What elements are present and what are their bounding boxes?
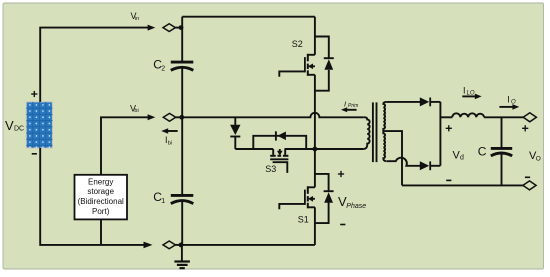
- svg-text:O: O: [536, 155, 541, 162]
- transformer core: [372, 102, 374, 162]
- minus of VPhase: [340, 224, 345, 226]
- energy storage box: [75, 175, 128, 220]
- wire rectifier output vertical: [439, 102, 441, 166]
- arrow Ibi (pointing left): [168, 130, 178, 132]
- wire diamond to bus: [176, 116, 183, 118]
- plus of VPhase: [338, 171, 344, 177]
- wire center tap: [383, 131, 402, 185]
- arrow ILO: [462, 95, 475, 97]
- wire output bottom rail: [402, 184, 523, 186]
- transistor S1 (mosfet): [279, 186, 315, 209]
- wire secondary top: [387, 101, 421, 103]
- diode body of S3 (branch above): [253, 131, 306, 149]
- wire diamond to bus: [175, 27, 182, 29]
- ground: [174, 245, 190, 268]
- diode rectifier bottom: [420, 161, 429, 170]
- transformer primary winding: [363, 117, 369, 149]
- capacitor C output: [501, 117, 503, 148]
- node Vin dot: [179, 25, 184, 30]
- diode body of S2: [315, 37, 334, 91]
- svg-text:bi: bi: [134, 108, 138, 114]
- wire primary bottom to junction: [315, 148, 363, 150]
- svg-text:Prim: Prim: [348, 103, 358, 109]
- svg-text:storage: storage: [87, 187, 114, 196]
- svg-text:S2: S2: [292, 39, 303, 49]
- port diamond Vbi: [163, 113, 175, 121]
- wire diamond to ground node: [175, 244, 182, 246]
- diode D freewheel vertical: [230, 117, 240, 149]
- wire top rail: [182, 16, 315, 18]
- svg-text:(Bidirectional: (Bidirectional: [78, 197, 124, 206]
- plus of VO: [522, 125, 528, 131]
- node Vbi dot: [179, 115, 184, 120]
- node primary-bottom junction dot: [313, 147, 318, 152]
- diode body of S1: [315, 174, 334, 223]
- arrow IPrim (pointing left): [347, 109, 357, 111]
- svg-text:bi: bi: [168, 140, 172, 146]
- port diamond output top: [523, 113, 536, 122]
- wire S2-S1 leg vertical: [314, 17, 316, 55]
- svg-text:Energy: Energy: [88, 177, 113, 186]
- node bottom dot: [179, 243, 184, 248]
- svg-text:DC: DC: [14, 126, 24, 133]
- port diamond Vin: [163, 24, 175, 32]
- transistor S3 (horizontal mosfet): [270, 149, 288, 173]
- svg-text:d: d: [460, 155, 464, 162]
- wire secondary bottom with hop: [387, 158, 421, 166]
- plus of Vd: [446, 125, 452, 131]
- transistor S2 (mosfet): [279, 54, 315, 77]
- wire Vin (VDC+ up and right with arrow): [40, 28, 148, 102]
- svg-text:I: I: [507, 95, 510, 105]
- minus of VDC: [32, 153, 37, 155]
- wire Vbi (from energy storage up and right with arrow): [101, 117, 148, 175]
- arrow IO: [499, 106, 512, 108]
- port diamond bottom: [163, 241, 175, 249]
- wire left bus vertical: [181, 17, 183, 62]
- svg-text:I: I: [344, 100, 346, 109]
- wire rectifier to inductor: [440, 116, 452, 118]
- svg-text:I: I: [463, 85, 466, 95]
- wire bottom rail left part with VDC- descent: [40, 148, 144, 245]
- inductor Lo: [452, 113, 484, 117]
- svg-text:1: 1: [161, 198, 165, 205]
- svg-text:2: 2: [161, 66, 165, 73]
- svg-text:Phase: Phase: [346, 203, 366, 210]
- svg-text:S1: S1: [298, 215, 309, 225]
- PV / DC source panel VDC: [26, 102, 52, 148]
- wire box to bottom rail: [100, 219, 102, 245]
- wire bottom rail right part: [182, 244, 315, 246]
- transformer secondary winding: [383, 102, 387, 161]
- arrowhead on bottom rail: [144, 242, 153, 249]
- diode rectifier top: [420, 97, 429, 106]
- wire mid rail with hop over S2-S1 leg: [182, 113, 363, 118]
- wire inductor to output: [484, 116, 523, 118]
- minus of VO: [525, 176, 530, 178]
- svg-text:S3: S3: [265, 164, 276, 174]
- capacitor C2: [171, 62, 194, 70]
- plus of VDC: [31, 91, 37, 97]
- minus of Vd: [446, 179, 451, 181]
- wire S3 rail: [235, 148, 273, 150]
- svg-text:LO: LO: [467, 90, 475, 96]
- port diamond output bottom: [523, 181, 536, 190]
- capacitor C1: [171, 195, 194, 203]
- svg-text:Port): Port): [92, 207, 110, 216]
- svg-text:in: in: [135, 16, 139, 22]
- svg-text:V: V: [5, 118, 14, 133]
- svg-text:C: C: [478, 144, 487, 158]
- svg-text:O: O: [511, 100, 516, 106]
